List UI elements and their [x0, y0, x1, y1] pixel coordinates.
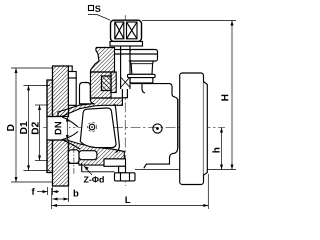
- hub right: [177, 99, 179, 148]
- dim h line: [221, 128, 223, 170]
- leader Z-phi-d: [84, 166, 92, 175]
- body cavity arc: [115, 104, 120, 153]
- flange face line: [46, 80, 48, 173]
- arrow Z-phi-d: [84, 166, 89, 170]
- dim b line: [53, 198, 69, 200]
- bonnet taper: [130, 61, 154, 74]
- bonnet wall column (section): [91, 72, 112, 98]
- dim f lines: [37, 191, 48, 193]
- bore top wall: [47, 116, 64, 118]
- dim D line: [15, 68, 17, 182]
- arrowheads: [15, 21, 234, 208]
- passage upper contour: [62, 117, 78, 127]
- arrows b: [53, 198, 58, 201]
- arrows D2: [38, 105, 41, 110]
- label b: [74, 190, 79, 197]
- gland plate right: [130, 50, 158, 62]
- label H: [221, 95, 228, 101]
- bore opening erase: [48, 117, 69, 139]
- bore bottom wall: [47, 140, 80, 149]
- bonnet stud lug: [80, 83, 95, 104]
- bolt-hole channel behind flange: [68, 150, 79, 164]
- bonnet band lower: [130, 78, 153, 83]
- bolt hole centerline: [73, 147, 75, 174]
- body bottom line / extension for h H: [135, 169, 236, 171]
- arrows DN: [66, 117, 69, 122]
- body slab upper left (section): [58, 98, 122, 116]
- stem square-section cross: [121, 77, 130, 88]
- stuffing strip (section): [111, 72, 116, 93]
- dim D1 line: [28, 85, 30, 170]
- passage lower contour: [62, 132, 78, 140]
- body top edge right: [131, 84, 178, 169]
- dim DN line: [66, 117, 68, 141]
- body bottom shadow lines: [81, 163, 83, 172]
- bonnet tower: [68, 78, 76, 105]
- flange right plate: [180, 73, 204, 185]
- label square S: [89, 6, 94, 11]
- label Z-phi-d: [84, 176, 104, 182]
- arrows f: [43, 190, 48, 193]
- bonnet arm: [68, 72, 76, 79]
- centerline vertical stem axis: [124, 15, 126, 186]
- head collar: [110, 42, 143, 47]
- body boss circle right: [153, 124, 162, 133]
- dim D2 line: [39, 105, 41, 161]
- flange right raised face: [204, 82, 208, 176]
- plug barrel: [80, 108, 116, 148]
- leader S: [88, 15, 111, 21]
- arrows h: [220, 128, 223, 133]
- stem: [121, 46, 130, 89]
- label D2: [31, 122, 38, 134]
- dimension graphics: [11, 15, 236, 210]
- bonnet arm small tab: [68, 66, 72, 72]
- centerline horizontal pipe axis: [43, 127, 225, 129]
- packing (section): [102, 76, 112, 91]
- bottom left body (section): [68, 141, 124, 166]
- square section box left: [115, 22, 124, 39]
- stem boss step: [122, 88, 127, 98]
- stem head housing: [111, 20, 142, 41]
- arrows D: [15, 68, 18, 73]
- bottom bolt head: [115, 173, 136, 181]
- flange left raised face: [47, 80, 53, 173]
- flange left plate: [53, 66, 69, 186]
- dim H line: [231, 21, 233, 170]
- arrows D1: [27, 85, 30, 90]
- bottom cover plate: [104, 159, 126, 166]
- label L: [125, 196, 130, 203]
- label D: [7, 125, 14, 131]
- bonnet flange band: [128, 74, 156, 77]
- square section box right: [127, 22, 138, 39]
- arrows L: [52, 204, 57, 207]
- bottom bolt stud: [119, 166, 126, 173]
- label f: [32, 188, 35, 195]
- label S: [95, 6, 100, 12]
- label D1: [20, 122, 27, 134]
- label h: [212, 148, 219, 153]
- bottom pocket: [79, 151, 97, 160]
- plug port circle: [89, 124, 95, 130]
- gland left (section): [91, 48, 115, 73]
- dim L line: [52, 205, 208, 207]
- arrows H: [231, 21, 234, 26]
- label DN: [55, 122, 62, 134]
- bonnet boss edge on body top: [142, 84, 145, 93]
